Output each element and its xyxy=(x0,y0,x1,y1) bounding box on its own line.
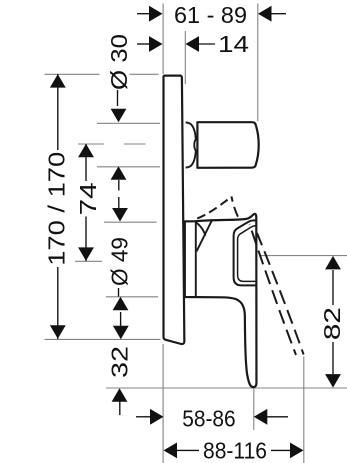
dashed lever long right edge xyxy=(257,233,304,355)
dim O49 line between arrows xyxy=(120,312,122,326)
ext line below plate (x=163) xyxy=(162,344,164,463)
ext line lever axis (y=261) xyxy=(75,260,102,262)
dashed lever long left edge xyxy=(250,224,297,355)
knob (cylinder, side view) xyxy=(197,122,258,168)
arrow down 82 bottom xyxy=(325,374,341,388)
ext line knob bottom (y=167) xyxy=(97,166,160,168)
ext line plate top (y=74) xyxy=(45,73,100,75)
lever grip window outer xyxy=(234,220,257,285)
arrow up knob bottom xyxy=(111,166,127,180)
arrow down O30 xyxy=(111,109,127,123)
arrow left 88-116 left xyxy=(164,443,178,459)
ext line 14-dim (x=185) xyxy=(184,31,186,84)
arrow up O49 xyxy=(113,297,129,311)
dim 170/170 line xyxy=(57,74,59,150)
dim O49 leader xyxy=(118,288,120,297)
ext line plate bottom (y=340) xyxy=(45,338,161,340)
arrow left at x=258 y=13.7 xyxy=(258,6,272,22)
ext line hub top (y=222) xyxy=(104,221,157,223)
dimension lines and arrows (black) xyxy=(58,14,333,451)
ext line knob front (x=258) xyxy=(257,4,259,122)
ext line dashed lever end (x=304) xyxy=(303,357,305,463)
svg-text:88-116: 88-116 xyxy=(203,437,267,463)
wall plate (escutcheon, side view) xyxy=(164,76,185,344)
svg-text:Ø 49: Ø 49 xyxy=(107,237,133,286)
svg-text:74: 74 xyxy=(75,182,101,215)
cone rear line xyxy=(195,222,197,297)
dim 32 tail below arrow xyxy=(119,401,121,415)
arrow down 74 bottom xyxy=(78,247,94,261)
dim 82 line xyxy=(332,270,334,305)
arrow right at x=162.5 y=44 xyxy=(149,36,163,52)
dim 88-116 line xyxy=(177,449,200,451)
arrow up 32 bottom xyxy=(112,388,128,402)
svg-text:82: 82 xyxy=(319,307,345,340)
dim O30 leader xyxy=(117,90,119,106)
arrow left at x=185.5 y=44 xyxy=(186,36,200,52)
dim 58-86 tails xyxy=(136,416,151,418)
ext line left of plate top (x=163) xyxy=(162,4,164,75)
arrow up 74 top xyxy=(78,144,94,158)
svg-text:Ø 30: Ø 30 xyxy=(106,34,132,90)
ext line hub bottom (y=297) xyxy=(106,296,158,298)
hub + lever (solid, closed position) xyxy=(185,214,257,387)
svg-text:170 / 170: 170 / 170 xyxy=(44,152,70,266)
arrow right 88-116 right xyxy=(290,443,304,459)
dim 74 line xyxy=(85,144,87,181)
arrow down hub top xyxy=(112,208,128,222)
arrow up 170 top xyxy=(50,74,66,88)
dim chain line between knob-bottom and hub-top arrows xyxy=(118,180,120,191)
arrow left 58-86 right xyxy=(254,409,267,425)
ext line knob axis (y=144) xyxy=(78,143,104,145)
ext line lever bottom (y=388) xyxy=(106,387,347,389)
dashed lever raised position: rising edge xyxy=(197,197,231,219)
arrow right 58-86 left xyxy=(150,409,164,425)
arrow down O49 bottom / plate bottom xyxy=(113,326,129,340)
dim 61-89 tails xyxy=(137,13,150,15)
dim 14 tails xyxy=(137,43,150,45)
dashed lever apex to corner xyxy=(232,197,241,222)
ext line lever tip (x=254) xyxy=(253,388,255,430)
lever grip window inner xyxy=(238,226,257,282)
arrow up 82 top xyxy=(325,256,341,270)
ext line knob top (y=123) xyxy=(97,122,160,124)
svg-text:61 - 89: 61 - 89 xyxy=(174,2,247,28)
lever rear slant line xyxy=(197,219,213,251)
svg-text:58-86: 58-86 xyxy=(182,406,236,432)
svg-text:32: 32 xyxy=(107,346,133,378)
arrow right at x=162.5 y=13.7 xyxy=(149,6,163,22)
cone arc xyxy=(196,222,206,235)
knob neck xyxy=(186,122,196,167)
ext line dashed lever top (y=255.6) xyxy=(259,255,347,257)
arrow down 170 bottom xyxy=(50,325,66,339)
svg-text:14: 14 xyxy=(218,31,249,57)
